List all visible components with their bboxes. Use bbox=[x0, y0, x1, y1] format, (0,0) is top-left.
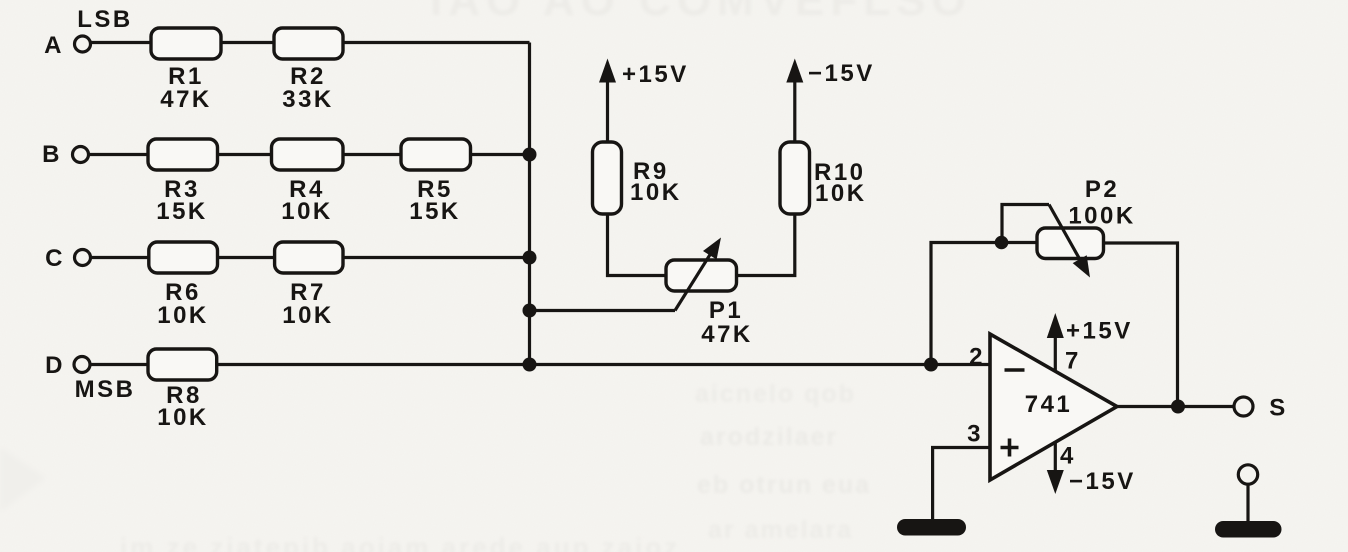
svg-text:10K: 10K bbox=[157, 302, 209, 329]
label R10 10K bbox=[814, 159, 867, 207]
resistor P2 body bbox=[1037, 228, 1104, 259]
wire R3 to R4 bbox=[218, 153, 272, 156]
wire A to R1 bbox=[91, 41, 152, 44]
wire summing bus vertical bbox=[528, 43, 531, 365]
label 741 bbox=[1025, 391, 1073, 418]
svg-text:−15V: −15V bbox=[808, 60, 875, 87]
svg-text:aicnelo qob: aicnelo qob bbox=[695, 380, 856, 408]
label R3 15K bbox=[156, 176, 208, 225]
resistor R7 bbox=[275, 242, 343, 273]
wire R1 to R2 bbox=[221, 41, 274, 44]
pin 7 label bbox=[1065, 348, 1081, 375]
svg-text:D: D bbox=[45, 352, 65, 379]
label R6 10K bbox=[157, 279, 209, 329]
resistor R2 bbox=[274, 28, 343, 59]
ground at reference terminal bbox=[1215, 521, 1282, 538]
resistor R5 bbox=[401, 139, 471, 170]
resistor R8 bbox=[148, 349, 217, 380]
label R5 15K bbox=[409, 176, 461, 225]
wire P2 to output bbox=[1104, 243, 1178, 407]
junction feedback tap bbox=[924, 358, 938, 372]
svg-text:+15V: +15V bbox=[1066, 318, 1133, 345]
resistor R3 bbox=[148, 139, 218, 170]
svg-text:eb otrun eua: eb otrun eua bbox=[697, 471, 871, 499]
svg-text:10K: 10K bbox=[157, 404, 209, 431]
resistor R9 bbox=[593, 142, 622, 214]
pin 4 -15V arrow bbox=[1047, 441, 1064, 494]
label P1 47K bbox=[701, 297, 753, 348]
svg-text:10K: 10K bbox=[815, 180, 867, 207]
svg-text:B: B bbox=[42, 141, 62, 168]
wire R8 to op-amp pin 2 bbox=[217, 363, 990, 366]
terminal S bbox=[1234, 397, 1253, 416]
terminal C bbox=[75, 250, 91, 266]
node A label bbox=[44, 32, 64, 59]
node S label bbox=[1269, 395, 1288, 422]
label +15V at pin 7 bbox=[1066, 318, 1133, 345]
op-amp U1 741 bbox=[990, 334, 1117, 480]
svg-text:10K: 10K bbox=[630, 179, 682, 206]
pin 2 label bbox=[969, 344, 985, 371]
wire op-amp output bbox=[1117, 405, 1234, 408]
label P2 100K bbox=[1068, 176, 1135, 230]
junction output node bbox=[1171, 400, 1185, 414]
node C label bbox=[45, 245, 65, 272]
svg-text:im ze ziatepib aoiam arede aup: im ze ziatepib aoiam arede aup zaioz bbox=[120, 532, 680, 552]
svg-text:2: 2 bbox=[969, 344, 985, 371]
svg-text:7: 7 bbox=[1065, 348, 1081, 375]
junction bus row B bbox=[523, 148, 537, 162]
label R4 10K bbox=[281, 176, 333, 225]
terminal ground reference bbox=[1238, 465, 1257, 484]
junction bus wiper row bbox=[523, 304, 537, 318]
label R7 10K bbox=[282, 279, 334, 329]
label R9 10K bbox=[630, 158, 682, 206]
resistor R1 bbox=[151, 28, 221, 59]
wire R9 to +15V arrow bbox=[599, 59, 616, 143]
svg-text:A: A bbox=[44, 32, 64, 59]
potentiometer P1 wiper arrow bbox=[675, 238, 721, 311]
wire bus to P1 wiper bbox=[530, 309, 676, 312]
svg-text:LSB: LSB bbox=[77, 6, 133, 33]
resistor R10 bbox=[780, 142, 810, 214]
wire B to R3 bbox=[89, 153, 149, 156]
svg-text:3: 3 bbox=[967, 421, 983, 448]
svg-text:15K: 15K bbox=[156, 198, 208, 225]
wire R9 to P1 bbox=[608, 214, 667, 276]
label +15V supply bbox=[622, 61, 689, 88]
svg-text:47K: 47K bbox=[701, 321, 753, 348]
svg-text:47K: 47K bbox=[160, 86, 212, 113]
svg-text:33K: 33K bbox=[282, 86, 334, 113]
junction P2 wiper tie bbox=[995, 236, 1009, 250]
label R2 33K bbox=[282, 63, 334, 113]
resistor R6 bbox=[149, 242, 218, 273]
op-amp plus input sign bbox=[1001, 439, 1019, 457]
wire R6 to R7 bbox=[218, 256, 275, 259]
terminal D bbox=[74, 357, 90, 373]
wire feedback riser bbox=[931, 243, 1037, 365]
label R8 10K bbox=[157, 382, 209, 431]
op-amp minus input sign bbox=[1005, 368, 1025, 372]
svg-text:10K: 10K bbox=[282, 302, 334, 329]
terminal B bbox=[73, 147, 89, 163]
wire D to R8 bbox=[90, 363, 148, 366]
svg-text:15K: 15K bbox=[409, 198, 461, 225]
svg-text:741: 741 bbox=[1025, 391, 1073, 418]
svg-text:P2: P2 bbox=[1085, 176, 1119, 203]
wire R2 to bus bbox=[343, 41, 530, 44]
wire P2 wiper tie bbox=[1002, 205, 1049, 243]
net MSB label bbox=[75, 376, 136, 403]
svg-text:arodzilaer: arodzilaer bbox=[700, 423, 838, 451]
wire R10 to -15V arrow bbox=[786, 59, 803, 143]
svg-text:IAO AO COMVEFLSO: IAO AO COMVEFLSO bbox=[430, 0, 972, 25]
node D label bbox=[45, 352, 65, 379]
svg-text:10K: 10K bbox=[281, 198, 333, 225]
svg-text:MSB: MSB bbox=[75, 376, 136, 403]
resistor R4 bbox=[272, 139, 344, 170]
junction bus row D bbox=[523, 358, 537, 372]
label R1 47K bbox=[160, 63, 212, 113]
wire R5 to bus bbox=[471, 153, 530, 156]
svg-text:4: 4 bbox=[1060, 443, 1076, 470]
junction bus row C bbox=[523, 251, 537, 265]
svg-text:ar amelara: ar amelara bbox=[708, 516, 853, 544]
terminal A bbox=[75, 36, 91, 52]
potentiometer P2 wiper arrow bbox=[1049, 205, 1090, 278]
svg-text:C: C bbox=[45, 245, 65, 272]
label -15V at pin 4 bbox=[1069, 468, 1136, 495]
pin 7 +15V arrow bbox=[1047, 313, 1064, 372]
resistor P1 body bbox=[666, 260, 737, 291]
wire pin 3 to ground bbox=[933, 448, 990, 520]
wire C to R6 bbox=[91, 256, 149, 259]
pin 4 label bbox=[1060, 443, 1076, 470]
svg-text:100K: 100K bbox=[1068, 203, 1135, 230]
ground at pin 3 bbox=[897, 519, 966, 536]
wire R7 to bus bbox=[343, 256, 530, 259]
wire P1 to R10 bbox=[737, 214, 795, 276]
svg-text:+15V: +15V bbox=[622, 61, 689, 88]
wire terminal to ground bbox=[1246, 484, 1249, 521]
label -15V supply bbox=[808, 60, 875, 87]
pin 3 label bbox=[967, 421, 983, 448]
svg-text:S: S bbox=[1269, 395, 1288, 422]
net LSB label bbox=[77, 6, 133, 33]
node B label bbox=[42, 141, 62, 168]
wire R4 to R5 bbox=[343, 153, 401, 156]
svg-text:P1: P1 bbox=[709, 297, 743, 324]
svg-text:−15V: −15V bbox=[1069, 468, 1136, 495]
